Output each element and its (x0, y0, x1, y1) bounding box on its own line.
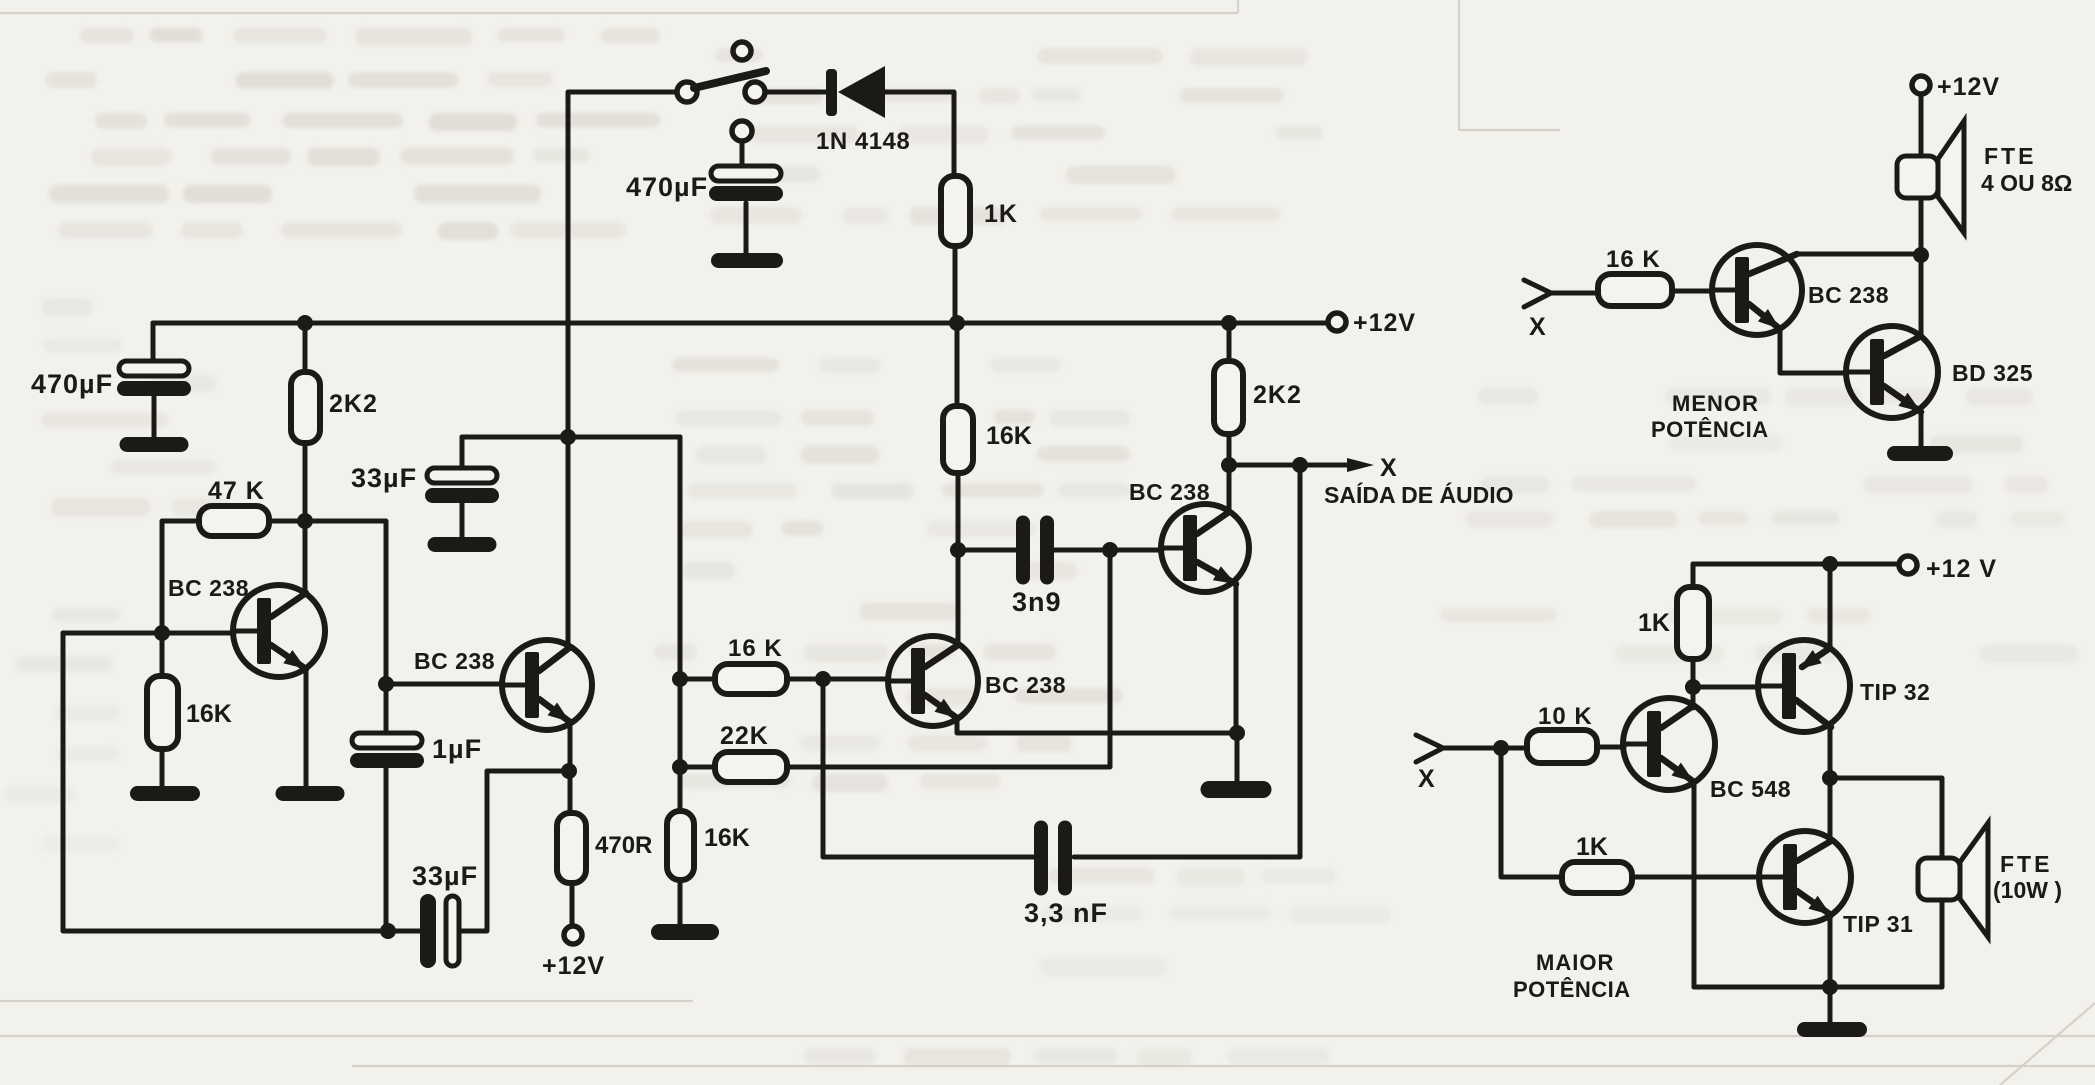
wire Q6 emitter to ground (1919, 413, 1924, 446)
svg-text:22K: 22K (720, 722, 769, 750)
wire Q5 emitter to Q6 base (1780, 329, 1847, 373)
wire input to R13 (1443, 746, 1527, 751)
wire node to R8 (680, 677, 715, 682)
wire emitters to ground (1235, 733, 1240, 781)
svg-text:3,3 nF: 3,3 nF (1024, 898, 1108, 928)
wire Q5 collector (1795, 252, 1921, 257)
capacitor C1 470uF (711, 166, 781, 181)
capacitor C5 33uF (420, 894, 436, 968)
resistor R12 1K (1677, 587, 1709, 659)
svg-text:1µF: 1µF (432, 734, 482, 764)
svg-text:TIP 32: TIP 32 (1860, 679, 1930, 705)
wire R8 to Q3 base (787, 677, 889, 682)
resistor R10 16K (667, 811, 694, 880)
svg-text:MAIOR: MAIOR (1536, 950, 1614, 975)
wire rail to C2 (151, 323, 156, 361)
node Q8-Q9-speaker junction (1822, 770, 1838, 786)
terminal +12V speaker1 (1912, 76, 1930, 94)
terminal +12V main (1328, 313, 1346, 331)
node rail2 junction (1822, 556, 1838, 572)
wire R4 to ground (160, 749, 165, 786)
node rail-R6 junction (949, 315, 965, 331)
transistor Q9 TIP31 (1759, 831, 1851, 923)
speaker FTE2 (1960, 823, 1988, 937)
node ground bus junction (1822, 979, 1838, 995)
transistor Q6 BD325 (1846, 326, 1938, 418)
node input junction (1493, 740, 1509, 756)
transistor Q2 BC238 (502, 640, 592, 730)
capacitor C6 3n9 (1016, 516, 1030, 585)
wire R2 right to node (269, 519, 305, 524)
wire Q8 collector down (1828, 727, 1833, 778)
svg-text:3n9: 3n9 (1012, 587, 1062, 617)
ground under R4 (130, 786, 200, 801)
resistor R2 47K (199, 506, 269, 536)
switch S1 lever (694, 71, 766, 88)
node R12-Q7-Q8 junction (1685, 679, 1701, 695)
wire Q4 collector up (1227, 465, 1232, 512)
svg-text:TIP 31: TIP 31 (1843, 911, 1913, 937)
node Q3 collector junction (950, 542, 966, 558)
wire R11 to Q5 base (1672, 289, 1713, 294)
wire node to C6 (958, 548, 1016, 553)
svg-text:FTE: FTE (2000, 851, 2052, 877)
ground under Q4 (1201, 781, 1272, 798)
wire bias line (462, 435, 680, 440)
svg-text:FTE: FTE (1984, 143, 2036, 169)
svg-text:BC 238: BC 238 (985, 672, 1066, 698)
wire switch to diode (766, 90, 826, 95)
wire R9 to C6 node (787, 550, 1110, 767)
svg-text:16K: 16K (186, 700, 232, 728)
node Q2 base junction (378, 676, 394, 692)
wire rail to R3 (303, 323, 308, 372)
ground under C2 (120, 437, 189, 452)
svg-text:BC 238: BC 238 (1129, 479, 1210, 505)
wire C6 to Q4 base (1054, 548, 1162, 553)
node Q3-Q4 emitter junction (1229, 725, 1245, 741)
wire R12 to node (1691, 659, 1696, 706)
transistor Q4 BC238 (1161, 504, 1249, 592)
node rail-R3 junction (297, 315, 313, 331)
wire C3 to ground (460, 503, 465, 537)
input chevron bottom right (1416, 735, 1443, 762)
wire bus to ground (1828, 987, 1833, 1022)
wire C7 to output node (1074, 465, 1300, 857)
terminal +12V rail2 (1899, 556, 1917, 574)
wire speaker2 top (1830, 778, 1942, 858)
wire R6 to node (956, 473, 961, 550)
wire Q3 collector up (956, 550, 961, 645)
svg-text:BC 238: BC 238 (414, 648, 495, 674)
wire +12V rail 2 (1693, 562, 1900, 567)
svg-text:SAÍDA DE ÁUDIO: SAÍDA DE ÁUDIO (1324, 481, 1514, 508)
transistor Q3 BC238 (888, 636, 978, 726)
svg-text:47 K: 47 K (208, 477, 265, 505)
transistor Q7 BC548 (1623, 698, 1715, 790)
wire R5 to +12V terminal (570, 883, 575, 925)
wire C4 to feedback node (384, 768, 389, 931)
wire terminal to C1 (740, 141, 745, 166)
capacitor C2 470uF (119, 361, 189, 376)
wire Q8 emitter to rail2 (1828, 564, 1833, 647)
node bias-switchline junction (560, 429, 576, 445)
wire +12V rail (153, 321, 1328, 326)
wire R14 to Q9 base (1632, 875, 1760, 880)
diode D1 1N4148 (826, 69, 837, 116)
svg-text:16K: 16K (704, 824, 750, 852)
wire rail to R6 (955, 323, 960, 406)
wire R10 to ground (678, 880, 683, 924)
wire node to C4 (384, 684, 389, 733)
ground under C3 (428, 537, 497, 552)
wire bottom bus (1694, 985, 1942, 990)
svg-text:16K: 16K (986, 422, 1032, 450)
svg-text:470µF: 470µF (31, 369, 113, 399)
node divider-R8 junction (672, 671, 688, 687)
wire feedback left leg (63, 633, 420, 931)
wire R1 to +12V rail (953, 246, 958, 323)
ground under Q6 (1887, 446, 1953, 461)
svg-text:2K2: 2K2 (1253, 381, 1302, 409)
ground under R10 (651, 924, 719, 940)
svg-text:BC 238: BC 238 (1808, 282, 1889, 308)
wire Q4 emitter down (1234, 584, 1239, 733)
svg-text:10 K: 10 K (1538, 703, 1593, 730)
wire Q1 emitter to ground (304, 669, 309, 786)
svg-text:X: X (1418, 765, 1435, 793)
resistor R13 10K (1527, 730, 1597, 763)
svg-text:MENOR: MENOR (1672, 391, 1759, 416)
capacitor C1 input terminal (732, 121, 752, 141)
wire input to R11 (1551, 291, 1598, 296)
wire output (1229, 463, 1352, 468)
wire rail2 to R12 (1691, 564, 1696, 587)
resistor R9 22K (715, 752, 787, 782)
switch S1 right terminal (745, 82, 765, 102)
resistor R4 16K (147, 676, 178, 749)
svg-text:BC 238: BC 238 (168, 575, 249, 601)
wire C1 to ground (744, 203, 749, 253)
svg-text:+12 V: +12 V (1926, 555, 1997, 583)
capacitor C3 33uF (427, 468, 497, 483)
transistor Q5 BC238 (1712, 245, 1802, 335)
wire Q3 base tap down (823, 679, 1036, 857)
svg-text:1N 4148: 1N 4148 (816, 128, 910, 155)
svg-text:1K: 1K (1576, 833, 1608, 861)
ground under C1 (711, 253, 783, 268)
wire Q3 emitter (957, 718, 1237, 733)
svg-text:2K2: 2K2 (329, 390, 378, 418)
wire speaker1 to Q6 collector (1919, 198, 1924, 335)
wire coupling Q1-Q2 (305, 521, 386, 684)
wire R7 to output node (1227, 434, 1232, 465)
wire base to R4 (160, 633, 165, 676)
node Q1 base junction (154, 625, 170, 641)
node output-C7 junction (1292, 457, 1308, 473)
resistor R5 470R (557, 813, 586, 883)
switch S1 upper terminal (733, 42, 751, 60)
wire bias to C3 (460, 437, 465, 468)
wire divider chain (678, 437, 683, 811)
wire C2 to ground (152, 397, 157, 437)
svg-text:BD 325: BD 325 (1952, 360, 2033, 386)
resistor R11 16K (1598, 274, 1672, 306)
wire Q9 collector up (1828, 778, 1833, 840)
transistor Q1 BC238 (233, 585, 325, 677)
wire R3 to Q1 collector (303, 443, 308, 594)
output arrow (1347, 458, 1374, 472)
node R8-Q3 junction (815, 671, 831, 687)
svg-text:POTÊNCIA: POTÊNCIA (1513, 977, 1631, 1002)
svg-text:16 K: 16 K (1606, 246, 1661, 273)
node C6-Q4 junction (1102, 542, 1118, 558)
wire rail to R7 (1227, 323, 1232, 361)
wire Q7 emitter down (1692, 781, 1697, 987)
wire Q2 emitter down (568, 722, 573, 813)
node output junction (1221, 457, 1237, 473)
wire node to R9 (680, 765, 715, 770)
node Q2 emitter junction (561, 763, 577, 779)
svg-text:33µF: 33µF (412, 861, 478, 891)
wire Q8 base (1693, 685, 1759, 690)
wire Q7 collector up (1691, 687, 1696, 708)
svg-text:+12V: +12V (1937, 73, 2000, 101)
svg-text:X: X (1380, 454, 1397, 482)
node rail-R7 junction (1221, 315, 1237, 331)
wire R2 left to Q1 base (162, 521, 199, 633)
svg-text:BC 548: BC 548 (1710, 776, 1791, 802)
node speaker1-Q5 junction (1913, 247, 1929, 263)
wire Q2 base (386, 682, 503, 687)
wire Q1 base (63, 631, 234, 636)
resistor R14 1K (1562, 862, 1632, 893)
node Q1 collector / R2 (297, 513, 313, 529)
resistor R8 16K (715, 664, 787, 694)
wire speaker2 bottom (1940, 900, 1945, 987)
capacitor C4 1uF (352, 733, 422, 748)
switch S1 left terminal (677, 82, 697, 102)
svg-text:1K: 1K (1638, 609, 1670, 637)
svg-text:16 K: 16 K (728, 635, 783, 662)
capacitor C7 3.3nF (1034, 821, 1048, 896)
ground under Q1 emitter (276, 786, 345, 801)
svg-text:(10W ): (10W ) (1993, 877, 2062, 903)
svg-text:+12V: +12V (542, 952, 605, 980)
svg-text:470R: 470R (595, 832, 652, 859)
wire input branch to R14 (1501, 748, 1562, 877)
svg-text:+12V: +12V (1353, 309, 1416, 337)
svg-text:1K: 1K (984, 200, 1018, 228)
resistor R3 2K2 (291, 372, 320, 443)
resistor R7 2K2 (1214, 361, 1243, 434)
wire terminal to speaker1 (1919, 94, 1924, 157)
wire switch feed to Q2 collector (568, 92, 676, 647)
terminal +12V Q2 emitter (564, 926, 582, 944)
transistor Q8 TIP32 (1758, 640, 1850, 732)
svg-text:33µF: 33µF (351, 463, 417, 493)
resistor R1 1K (941, 176, 970, 246)
svg-text:470µF: 470µF (626, 172, 708, 202)
wire Q9 emitter down (1828, 915, 1833, 987)
resistor R6 16K (943, 406, 973, 473)
svg-text:4 OU 8Ω: 4 OU 8Ω (1981, 170, 2072, 196)
svg-text:POTÊNCIA: POTÊNCIA (1651, 417, 1769, 442)
ground maior potencia (1797, 1022, 1867, 1037)
svg-text:X: X (1529, 313, 1546, 341)
wire R13 to Q7 base (1597, 745, 1624, 750)
input chevron top right (1524, 280, 1551, 307)
wire diode to R1 (885, 92, 954, 176)
wire emitter branch to C5 (459, 771, 569, 931)
node feedback-C4 junction (380, 923, 396, 939)
speaker FTE1 (1938, 121, 1964, 233)
node divider-R9 junction (672, 759, 688, 775)
